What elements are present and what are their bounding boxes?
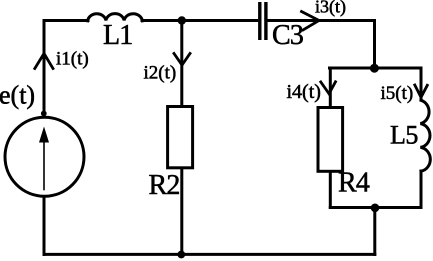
svg-text:e(t): e(t) [0, 81, 35, 110]
svg-text:R2: R2 [149, 170, 180, 201]
arrow i4(t) [321, 82, 336, 94]
node right upper (R4/L5 split) [370, 64, 379, 73]
wire R2 branch upper [180, 21, 183, 107]
node bottom (R2 to bus) [177, 251, 185, 259]
voltage source e(t) circle [5, 117, 84, 196]
wire bottom bus [44, 253, 375, 256]
wire R4 branch lower [329, 172, 332, 208]
capacitor C3 plate right [264, 4, 267, 39]
wire top-left horizontal [44, 19, 88, 22]
resistor R4 [318, 108, 343, 172]
svg-text:i1(t): i1(t) [56, 49, 89, 70]
wire left vertical (source to top-left corner) [43, 21, 46, 116]
resistor R2 [168, 107, 193, 168]
wire R2 branch lower [180, 168, 183, 254]
svg-text:i4(t): i4(t) [287, 81, 321, 103]
svg-text:R4: R4 [338, 168, 370, 199]
svg-text:L5: L5 [390, 121, 418, 150]
wire R4 branch upper [329, 68, 332, 107]
wire junction horizontal (R4/L5 top rail) [330, 67, 422, 70]
wire source bottom [43, 198, 46, 254]
wire junction to bottom bus [373, 208, 376, 255]
wire L5 branch lower [420, 171, 423, 208]
wire top-right horizontal (C3 to corner) [267, 19, 374, 22]
wire right descend to junction [373, 21, 376, 69]
wire bottom rail (R4/L5 bottom) [330, 206, 421, 209]
arrow i5(t) [415, 85, 428, 97]
inductor L5 [420, 100, 430, 171]
node source top [41, 111, 47, 117]
arrow i2(t) [174, 54, 190, 66]
inductor L1 [88, 14, 143, 21]
capacitor C3 plate left [258, 4, 261, 39]
wire top-middle horizontal (L1 to C3) [142, 19, 257, 22]
source internal arrow head [39, 127, 49, 143]
source internal arrow shaft [43, 133, 45, 190]
svg-text:L1: L1 [103, 20, 133, 51]
node top (L1/R2/C3) [178, 16, 186, 24]
node right lower (R4/L5 join) [371, 204, 380, 213]
svg-text:i5(t): i5(t) [381, 83, 414, 104]
wire L5 branch upper [420, 68, 423, 100]
svg-text:C3: C3 [272, 20, 303, 51]
arrow i3(t) [302, 12, 320, 31]
svg-text:i2(t): i2(t) [144, 63, 177, 84]
arrow i1(t) [35, 54, 53, 69]
svg-text:i3(t): i3(t) [315, 0, 346, 18]
